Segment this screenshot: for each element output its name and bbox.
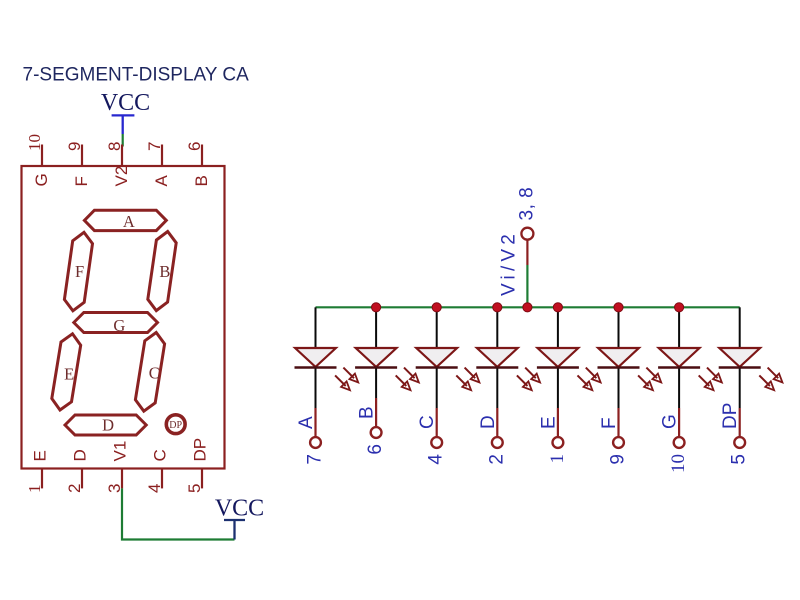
svg-text:C: C bbox=[149, 363, 160, 382]
wire rail to LED D anode bbox=[496, 307, 498, 348]
svg-text:DP: DP bbox=[191, 438, 210, 462]
svg-text:7-SEGMENT-DISPLAY CA: 7-SEGMENT-DISPLAY CA bbox=[23, 65, 250, 86]
terminal B pin stub bbox=[375, 398, 377, 427]
wire VCC top to pin 8 bbox=[122, 134, 124, 147]
junction dot G bbox=[675, 303, 684, 312]
wire LED B cathode bbox=[375, 369, 377, 399]
wire rail to LED A anode bbox=[315, 307, 317, 348]
wire pin 3 to VCC bottom bbox=[122, 488, 235, 539]
LED D4 emission arrow 2 bbox=[517, 375, 528, 386]
segment DP bbox=[166, 415, 185, 434]
svg-text:G: G bbox=[32, 173, 51, 186]
LED D8 emission arrow 2 bbox=[759, 375, 770, 386]
terminal D pin stub bbox=[496, 408, 498, 437]
LED D7 emission arrow 2 bbox=[699, 375, 710, 386]
svg-text:VCC: VCC bbox=[101, 90, 150, 116]
svg-text:DP: DP bbox=[169, 420, 182, 431]
junction dot E bbox=[553, 303, 562, 312]
pin 5 stub (bottom) bbox=[201, 469, 203, 489]
LED D3 emission arrow 1 bbox=[465, 368, 476, 379]
svg-text:1: 1 bbox=[25, 485, 44, 494]
LED D4 (segment D) triangle bbox=[477, 348, 518, 367]
svg-text:A: A bbox=[123, 212, 135, 231]
segment B bbox=[148, 232, 176, 311]
svg-text:E: E bbox=[538, 416, 559, 429]
segment D bbox=[65, 415, 146, 435]
wire rail to LED DP anode bbox=[739, 307, 741, 348]
svg-text:E: E bbox=[64, 364, 74, 383]
pin 6 stub (top) bbox=[201, 145, 203, 167]
terminal F pin stub bbox=[617, 408, 619, 437]
LED D6 emission arrow 1 bbox=[646, 368, 657, 379]
LED D8 cathode bar bbox=[719, 366, 761, 368]
wire LED E cathode bbox=[557, 369, 559, 409]
svg-text:F: F bbox=[599, 417, 620, 429]
svg-text:5: 5 bbox=[729, 454, 750, 465]
7-segment display U1 body bbox=[22, 166, 225, 469]
svg-text:V1: V1 bbox=[111, 441, 130, 462]
LED D8 emission arrow 1 bbox=[768, 368, 779, 379]
LED D3 (segment C) triangle bbox=[416, 348, 457, 367]
terminal DP pin stub bbox=[739, 408, 741, 437]
wire common node to terminal 3,8 bbox=[526, 265, 528, 307]
svg-text:9: 9 bbox=[608, 454, 629, 465]
wire LED DP cathode bbox=[739, 369, 741, 409]
LED D1 emission arrow 1 bbox=[343, 368, 354, 379]
junction dot common node bbox=[523, 303, 532, 312]
wire rail to LED F anode bbox=[618, 307, 620, 348]
svg-text:D: D bbox=[478, 415, 499, 429]
LED D7 cathode bar bbox=[658, 366, 700, 368]
segment F bbox=[64, 232, 92, 310]
svg-text:F: F bbox=[72, 176, 91, 186]
LED D6 cathode bar bbox=[598, 366, 640, 368]
pin 7 stub (top) bbox=[161, 145, 163, 167]
terminal 3,8 pin circle bbox=[521, 228, 533, 240]
svg-text:B: B bbox=[357, 406, 378, 419]
power terminal VCC bottom symbol bbox=[224, 520, 245, 540]
svg-text:10: 10 bbox=[668, 454, 689, 473]
LED D2 cathode bar bbox=[355, 366, 397, 368]
LED D6 emission arrow 2 bbox=[638, 375, 649, 386]
terminal C pin circle bbox=[431, 437, 442, 448]
LED D2 (segment B) triangle bbox=[356, 348, 397, 367]
wire LED F cathode bbox=[618, 369, 620, 409]
junction dot C bbox=[432, 303, 441, 312]
junction dot B bbox=[372, 303, 381, 312]
svg-text:D: D bbox=[102, 416, 114, 435]
wire rail to LED C anode bbox=[436, 307, 438, 348]
wire common anode rail bbox=[316, 306, 740, 308]
wire LED C cathode bbox=[436, 369, 438, 409]
LED D8 (segment DP) triangle bbox=[719, 348, 760, 367]
svg-text:9: 9 bbox=[65, 142, 84, 151]
pin 4 stub (bottom) bbox=[161, 469, 163, 489]
LED D4 emission arrow 1 bbox=[525, 368, 536, 379]
terminal DP pin circle bbox=[734, 437, 745, 448]
svg-text:A: A bbox=[152, 175, 171, 187]
pin 1 stub (bottom) bbox=[41, 469, 43, 489]
svg-text:3, 8: 3, 8 bbox=[517, 187, 538, 221]
LED D7 (segment G) triangle bbox=[659, 348, 700, 367]
terminal F pin circle bbox=[613, 437, 624, 448]
terminal A pin stub bbox=[314, 408, 316, 437]
LED D5 emission arrow 1 bbox=[586, 368, 597, 379]
svg-text:7: 7 bbox=[145, 142, 164, 151]
svg-text:B: B bbox=[192, 175, 211, 186]
junction dot D bbox=[493, 303, 502, 312]
svg-text:Vi/V2: Vi/V2 bbox=[499, 230, 520, 296]
segment G bbox=[74, 313, 158, 333]
svg-text:2: 2 bbox=[486, 454, 507, 465]
LED D3 cathode bar bbox=[416, 366, 458, 368]
svg-text:VCC: VCC bbox=[215, 495, 264, 521]
svg-text:A: A bbox=[296, 416, 317, 429]
svg-text:E: E bbox=[31, 450, 50, 461]
LED D2 emission arrow 2 bbox=[396, 375, 407, 386]
LED D5 cathode bar bbox=[537, 366, 579, 368]
svg-text:6: 6 bbox=[365, 444, 386, 455]
LED D1 cathode bar bbox=[295, 366, 337, 368]
LED D4 cathode bar bbox=[476, 366, 518, 368]
segment E bbox=[52, 334, 81, 410]
wire rail to LED G anode bbox=[678, 307, 680, 348]
svg-text:4: 4 bbox=[426, 454, 447, 465]
pin 10 stub (top) bbox=[41, 145, 43, 167]
LED D2 emission arrow 1 bbox=[404, 368, 415, 379]
svg-text:DP: DP bbox=[720, 403, 741, 429]
svg-text:D: D bbox=[71, 449, 90, 461]
wire rail to LED B anode bbox=[375, 307, 377, 348]
junction dot F bbox=[614, 303, 623, 312]
terminal E pin stub bbox=[557, 408, 559, 437]
terminal 3,8 pin stub bbox=[526, 240, 528, 265]
svg-text:2: 2 bbox=[65, 484, 84, 493]
LED D1 emission arrow 2 bbox=[335, 375, 346, 386]
LED D5 emission arrow 2 bbox=[578, 375, 589, 386]
wire LED D cathode bbox=[496, 369, 498, 409]
svg-text:5: 5 bbox=[185, 484, 204, 493]
svg-text:7: 7 bbox=[305, 454, 326, 465]
svg-text:C: C bbox=[151, 449, 170, 461]
svg-text:6: 6 bbox=[185, 142, 204, 151]
svg-text:8: 8 bbox=[105, 142, 124, 151]
svg-text:10: 10 bbox=[25, 134, 44, 151]
LED D3 emission arrow 2 bbox=[456, 375, 467, 386]
terminal B pin circle bbox=[371, 427, 382, 438]
pin 2 stub (bottom) bbox=[81, 469, 83, 489]
LED D1 (segment A) triangle bbox=[295, 348, 336, 367]
terminal C pin stub bbox=[436, 408, 438, 437]
terminal A pin circle bbox=[310, 437, 321, 448]
LED D6 (segment F) triangle bbox=[598, 348, 639, 367]
terminal E pin circle bbox=[553, 437, 564, 448]
segment C bbox=[135, 333, 164, 412]
svg-text:4: 4 bbox=[145, 484, 164, 493]
wire LED G cathode bbox=[678, 369, 680, 409]
svg-text:1: 1 bbox=[547, 454, 568, 464]
terminal G pin circle bbox=[674, 437, 685, 448]
segment A bbox=[84, 210, 166, 230]
LED D5 (segment E) triangle bbox=[538, 348, 579, 367]
pin 8 stub (top) bbox=[121, 145, 123, 167]
svg-text:G: G bbox=[660, 414, 681, 429]
pin 9 stub (top) bbox=[81, 145, 83, 167]
svg-text:F: F bbox=[75, 262, 84, 281]
svg-text:C: C bbox=[417, 415, 438, 429]
svg-text:G: G bbox=[113, 316, 125, 335]
power terminal VCC top symbol bbox=[112, 115, 135, 134]
LED D7 emission arrow 1 bbox=[707, 368, 718, 379]
svg-text:V2: V2 bbox=[112, 166, 131, 187]
terminal G pin stub bbox=[678, 408, 680, 437]
terminal D pin circle bbox=[492, 437, 503, 448]
wire rail to LED E anode bbox=[557, 307, 559, 348]
wire LED A cathode bbox=[315, 369, 317, 409]
svg-text:B: B bbox=[159, 262, 170, 281]
pin 3 stub (bottom) bbox=[121, 469, 123, 489]
